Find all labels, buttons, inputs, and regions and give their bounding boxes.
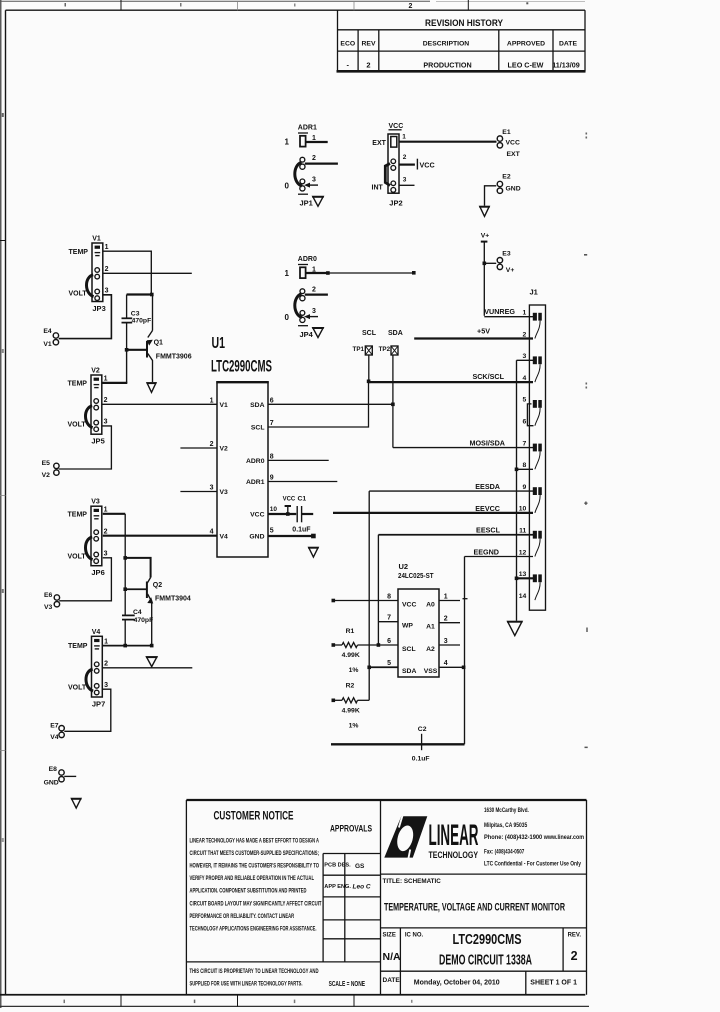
svg-text:3: 3 bbox=[104, 419, 108, 426]
op-amp U1 LTC2990CMS bbox=[211, 335, 272, 557]
svg-text:1: 1 bbox=[105, 244, 109, 251]
J1 pin 3 contact bbox=[533, 356, 542, 382]
svg-text:U2: U2 bbox=[399, 562, 409, 571]
wire JP5 pin3 to E5 bbox=[59, 426, 112, 469]
svg-text:www.linear.com: www.linear.com bbox=[543, 834, 585, 841]
svg-text:R2: R2 bbox=[346, 682, 355, 689]
wire U2 A0 stub bbox=[439, 600, 460, 602]
svg-text:VCC: VCC bbox=[420, 160, 435, 169]
svg-text:SCL: SCL bbox=[251, 425, 265, 432]
svg-text:1: 1 bbox=[104, 638, 108, 645]
svg-text:3: 3 bbox=[403, 177, 407, 184]
svg-text:APPROVALS: APPROVALS bbox=[330, 824, 372, 835]
svg-text:JP7: JP7 bbox=[92, 700, 105, 709]
svg-text:VOLT: VOLT bbox=[69, 290, 88, 297]
wire U2 VCC bbox=[333, 600, 398, 602]
svg-text:SCL: SCL bbox=[362, 330, 377, 337]
wire SCK/SCL bbox=[369, 381, 534, 383]
wire JP1 pin3 stub bbox=[306, 184, 318, 186]
wire EEVCC (VCC net) bbox=[333, 512, 533, 514]
svg-text:2: 2 bbox=[409, 3, 413, 10]
svg-text:14: 14 bbox=[519, 593, 527, 600]
capacitor C4 470pF bbox=[122, 609, 153, 646]
svg-text:LTC Confidential - For Custome: LTC Confidential - For Customer Use Only bbox=[484, 861, 581, 868]
svg-text:A1: A1 bbox=[426, 624, 435, 631]
svg-text:EXT: EXT bbox=[507, 151, 521, 158]
revision history table bbox=[337, 10, 586, 71]
svg-text:LTC2990CMS: LTC2990CMS bbox=[211, 357, 272, 376]
test point TP1 SCL bbox=[353, 330, 377, 355]
svg-text:10: 10 bbox=[519, 506, 527, 513]
svg-text:DATE: DATE bbox=[383, 977, 401, 984]
svg-text:1: 1 bbox=[285, 138, 290, 147]
header JP3 (V1) bbox=[69, 236, 109, 314]
svg-text:VCC: VCC bbox=[389, 123, 404, 130]
ground at JP1 bbox=[313, 197, 324, 207]
wire E8 stub bbox=[64, 775, 76, 777]
wire V+ to E3 and VUNREG bbox=[483, 242, 485, 316]
junction TP1 / SCK-SCL bbox=[367, 380, 371, 384]
turret E7 V4 bbox=[50, 722, 64, 741]
svg-text:E1: E1 bbox=[502, 129, 511, 136]
wire JP3 pin3 to E4 bbox=[59, 295, 112, 339]
svg-text:SCK/SCL: SCK/SCL bbox=[472, 372, 504, 381]
J1 pin 1 contact bbox=[533, 313, 542, 339]
J1 pin 9 contact bbox=[533, 487, 542, 513]
wire U1 VCC pin bbox=[268, 513, 296, 515]
svg-text:V3: V3 bbox=[220, 489, 229, 496]
svg-text:470pF: 470pF bbox=[134, 617, 154, 624]
svg-text:C4: C4 bbox=[133, 609, 142, 616]
svg-text:3: 3 bbox=[104, 682, 108, 689]
svg-text:Monday, October 04, 2010: Monday, October 04, 2010 bbox=[414, 979, 500, 986]
svg-text:REVISION HISTORY: REVISION HISTORY bbox=[425, 18, 504, 29]
wire J1 pin3 to ground bus bbox=[517, 359, 534, 361]
svg-text:SDA: SDA bbox=[250, 402, 264, 409]
wire Q2 base bbox=[125, 588, 147, 590]
svg-text:3: 3 bbox=[104, 551, 108, 558]
svg-text:TEMP: TEMP bbox=[69, 249, 89, 256]
wire JP4 pin3 stub bbox=[306, 316, 318, 318]
J1 pin 11 contact bbox=[533, 531, 542, 557]
wire C3 top to Q1 emitter vertical bbox=[127, 293, 153, 295]
svg-text:TECHNOLOGY: TECHNOLOGY bbox=[429, 850, 479, 861]
junction C3 bottom / Q1 base bbox=[125, 348, 129, 352]
resistor R2 4.99K bbox=[333, 682, 360, 729]
wire U1 V3 stub bbox=[180, 491, 217, 493]
svg-text:1: 1 bbox=[523, 310, 527, 317]
svg-text:V1: V1 bbox=[92, 236, 101, 243]
svg-text:V1: V1 bbox=[43, 341, 52, 348]
company address bbox=[484, 807, 584, 868]
svg-text:TEMP: TEMP bbox=[68, 643, 88, 650]
svg-text:SDA: SDA bbox=[388, 330, 403, 337]
svg-text:SUPPLIED FOR USE WITH LINEAR T: SUPPLIED FOR USE WITH LINEAR TECHNOLOGY … bbox=[190, 982, 303, 988]
jumper JP2 (VCC EXT/INT select) bbox=[372, 123, 407, 207]
svg-text:2: 2 bbox=[104, 397, 108, 404]
wire JP6 pin2 to U1 V4 bbox=[103, 535, 217, 537]
svg-text:PERFORMANCE OR RELIABILITY. CO: PERFORMANCE OR RELIABILITY. CONTACT LINE… bbox=[190, 914, 295, 920]
svg-text:1: 1 bbox=[444, 593, 448, 600]
turret E8 GND bbox=[44, 766, 65, 786]
wire JP7 pin2 (dangling) bbox=[103, 667, 192, 669]
wire JP4 pin2 stub bbox=[305, 294, 328, 296]
svg-text:J1: J1 bbox=[530, 288, 538, 297]
svg-text:1: 1 bbox=[312, 135, 316, 142]
svg-text:12: 12 bbox=[519, 549, 527, 556]
svg-text:EEGND: EEGND bbox=[473, 547, 499, 556]
svg-text:GND: GND bbox=[506, 186, 521, 193]
svg-text:0: 0 bbox=[285, 313, 290, 322]
svg-text:JP2: JP2 bbox=[389, 198, 402, 207]
wire Q1 base bbox=[127, 349, 147, 351]
wire JP3 pin1 to Q1 collector net bbox=[103, 251, 152, 294]
wire JP5 pin1 to Q1 base junction bbox=[102, 382, 128, 384]
svg-text:TP1: TP1 bbox=[353, 346, 365, 353]
svg-text:6: 6 bbox=[387, 638, 391, 645]
svg-text:TECHNOLOGY APPLICATIONS ENGINE: TECHNOLOGY APPLICATIONS ENGINEERING FOR … bbox=[190, 926, 317, 932]
svg-text:1: 1 bbox=[104, 376, 108, 383]
title block bbox=[186, 800, 586, 995]
wire EESDA vertical bbox=[368, 491, 370, 700]
svg-text:8: 8 bbox=[270, 453, 274, 460]
svg-text:2: 2 bbox=[403, 154, 407, 161]
svg-text:C3: C3 bbox=[131, 310, 140, 317]
svg-text:JP3: JP3 bbox=[92, 304, 105, 313]
svg-text:JP5: JP5 bbox=[91, 437, 104, 446]
svg-text:V4: V4 bbox=[220, 533, 229, 540]
svg-text:V2: V2 bbox=[42, 472, 51, 479]
jumper JP1 (ADR1) bbox=[285, 124, 317, 207]
svg-text:Q2: Q2 bbox=[153, 582, 162, 589]
svg-text:APP ENG.: APP ENG. bbox=[324, 884, 351, 890]
wire EEGND bbox=[465, 556, 534, 558]
ground at E8 bbox=[71, 799, 81, 809]
capacitor C3 470pF bbox=[122, 295, 152, 350]
wire JP6 pin3 to E6 bbox=[59, 558, 111, 601]
wire JP4 pin1 (ADR0 net) bbox=[306, 272, 328, 274]
svg-text:IC NO.: IC NO. bbox=[405, 933, 424, 939]
svg-text:V+: V+ bbox=[481, 232, 490, 239]
svg-text:N/A: N/A bbox=[383, 951, 402, 963]
svg-text:3: 3 bbox=[210, 485, 214, 492]
svg-text:VCC: VCC bbox=[283, 496, 296, 503]
svg-text:11/13/09: 11/13/09 bbox=[552, 61, 580, 70]
svg-text:APPROVED: APPROVED bbox=[507, 40, 545, 47]
svg-text:2: 2 bbox=[105, 266, 109, 273]
svg-text:Milpitas, CA 95035: Milpitas, CA 95035 bbox=[484, 822, 528, 829]
wire U2 A2 stub bbox=[439, 644, 460, 646]
turret E5 V2 bbox=[42, 460, 60, 479]
svg-text:2: 2 bbox=[571, 949, 578, 963]
wire U2 VSS to EEGND vertical bbox=[439, 666, 465, 668]
svg-text:E8: E8 bbox=[49, 766, 58, 773]
svg-text:Fax: (408)434-0507: Fax: (408)434-0507 bbox=[484, 849, 525, 856]
ground at U1 bbox=[309, 547, 319, 557]
svg-text:5: 5 bbox=[270, 527, 274, 534]
svg-text:SCL: SCL bbox=[402, 646, 416, 653]
svg-text:24LC025-ST: 24LC025-ST bbox=[398, 571, 434, 580]
svg-text:CUSTOMER NOTICE: CUSTOMER NOTICE bbox=[214, 811, 294, 823]
J1 pin 7 contact bbox=[533, 444, 542, 470]
ground at J1 bbox=[508, 621, 523, 635]
wire U1 GND bbox=[268, 535, 313, 537]
svg-text:A2: A2 bbox=[426, 646, 435, 653]
svg-text:8: 8 bbox=[523, 462, 527, 469]
svg-text:REV.: REV. bbox=[568, 933, 582, 939]
svg-text:0: 0 bbox=[285, 181, 290, 190]
ground at Q2 emitter bbox=[146, 657, 157, 667]
wire J1 pin5-6 tie bbox=[527, 404, 533, 426]
wire JP2 pin3 stub bbox=[399, 184, 415, 186]
svg-text:2: 2 bbox=[366, 61, 370, 70]
svg-text:6: 6 bbox=[523, 419, 527, 426]
svg-text:TITLE: SCHEMATIC: TITLE: SCHEMATIC bbox=[383, 878, 442, 885]
wire U1 SCL up to SCK/SCL net bbox=[268, 381, 369, 427]
svg-text:SDA: SDA bbox=[402, 668, 416, 675]
svg-text:Leo C: Leo C bbox=[353, 884, 371, 891]
connector J1 bbox=[529, 288, 545, 611]
svg-text:2: 2 bbox=[104, 528, 108, 535]
svg-text:V2: V2 bbox=[220, 446, 229, 453]
svg-text:4: 4 bbox=[210, 529, 214, 536]
wire R1 to U2 SCL bbox=[358, 644, 399, 646]
svg-text:VCC: VCC bbox=[506, 140, 520, 147]
svg-text:1630 McCarthy Blvd.: 1630 McCarthy Blvd. bbox=[484, 807, 529, 814]
svg-text:11: 11 bbox=[519, 528, 526, 535]
svg-text:EEVCC: EEVCC bbox=[475, 504, 500, 513]
wire R2 to EESDA vertical bbox=[358, 699, 370, 701]
J1 pin 13 contact bbox=[533, 574, 542, 600]
resistor R1 4.99K bbox=[333, 628, 360, 674]
wire EESCL vertical bbox=[377, 535, 379, 645]
svg-text:VERIFY PROPER AND RELIABLE OPE: VERIFY PROPER AND RELIABLE OPERATION IN … bbox=[190, 876, 315, 882]
svg-text:E5: E5 bbox=[42, 460, 51, 467]
turret E4 V1 bbox=[43, 328, 58, 348]
wire TP2 down to MOSI/SDA bbox=[392, 355, 394, 448]
svg-text:LINEAR: LINEAR bbox=[429, 819, 479, 852]
wire JP6 pin1 down to Q2 collector bbox=[103, 513, 125, 515]
svg-text:2: 2 bbox=[523, 331, 527, 338]
svg-text:V4: V4 bbox=[50, 734, 59, 741]
junction J1 pin8 / ground bus bbox=[515, 468, 519, 472]
wire EESDA bbox=[369, 490, 533, 492]
svg-text:7: 7 bbox=[270, 420, 274, 427]
header JP5 (V2) bbox=[68, 368, 108, 446]
wire JP7 pin1 / C4 / Q2 emitter to ground bbox=[103, 645, 152, 647]
svg-text:CIRCUIT THAT MEETS CUSTOMER-SU: CIRCUIT THAT MEETS CUSTOMER-SUPPLIED SPE… bbox=[190, 851, 320, 857]
Linear Technology logo bbox=[384, 815, 478, 861]
svg-text:LINEAR TECHNOLOGY HAS MADE A B: LINEAR TECHNOLOGY HAS MADE A BEST EFFORT… bbox=[190, 839, 320, 845]
svg-text:APPLICATION. COMPONENT SUBSTIT: APPLICATION. COMPONENT SUBSTITUTION AND … bbox=[190, 889, 307, 895]
svg-text:INT: INT bbox=[372, 185, 384, 192]
svg-text:0.1uF: 0.1uF bbox=[412, 756, 430, 763]
turret E3 V+ bbox=[497, 250, 514, 273]
ground at E2 bbox=[480, 206, 490, 216]
svg-text:VOLT: VOLT bbox=[68, 421, 87, 428]
transistor Q1 FMMT3906 bbox=[147, 295, 192, 383]
svg-text:CIRCUIT BOARD LAYOUT MAY SIGNI: CIRCUIT BOARD LAYOUT MAY SIGNIFICANTLY A… bbox=[190, 901, 322, 907]
svg-text:E4: E4 bbox=[43, 328, 52, 335]
svg-text:FMMT3904: FMMT3904 bbox=[155, 596, 191, 603]
wire JP7 pin3 to E7 bbox=[64, 689, 111, 731]
svg-text:VOLT: VOLT bbox=[68, 685, 87, 692]
svg-text:EXT: EXT bbox=[372, 140, 386, 147]
svg-text:5: 5 bbox=[387, 660, 391, 667]
wire U1 SDA to TP2 net bbox=[268, 403, 393, 405]
wire E2 to ground bbox=[485, 186, 497, 206]
wire JP2 pin2 to VCC flag bbox=[399, 164, 415, 166]
svg-text:SIZE: SIZE bbox=[383, 933, 396, 939]
svg-text:7: 7 bbox=[387, 615, 391, 622]
svg-text:VSS: VSS bbox=[424, 668, 438, 675]
svg-text:V1: V1 bbox=[220, 402, 229, 409]
svg-text:PCB DES.: PCB DES. bbox=[324, 863, 351, 869]
junction Q2 base / C4 net bbox=[123, 587, 127, 591]
svg-text:R1: R1 bbox=[346, 628, 355, 635]
svg-text:LEO C-EW: LEO C-EW bbox=[508, 61, 544, 70]
EEPROM U2 24LC025-ST bbox=[398, 562, 439, 677]
svg-text:1%: 1% bbox=[349, 667, 359, 674]
svg-text:VCC: VCC bbox=[402, 601, 416, 608]
wire JP5 pin2 to U1 V1 bbox=[102, 403, 217, 405]
wire U2 WP stub bbox=[378, 621, 398, 623]
svg-text:SCALE = NONE: SCALE = NONE bbox=[329, 981, 366, 988]
ground at JP4 bbox=[313, 328, 324, 338]
svg-text:8: 8 bbox=[387, 593, 391, 600]
svg-text:Phone: (408)432-1900: Phone: (408)432-1900 bbox=[484, 834, 543, 841]
svg-text:1: 1 bbox=[285, 269, 290, 278]
svg-text:JP6: JP6 bbox=[91, 568, 104, 577]
header JP6 (V3) bbox=[68, 499, 108, 578]
svg-text:EESDA: EESDA bbox=[475, 482, 500, 491]
svg-text:3: 3 bbox=[312, 177, 316, 184]
svg-text:JP1: JP1 bbox=[300, 198, 313, 207]
svg-text:9: 9 bbox=[523, 484, 527, 491]
svg-text:9: 9 bbox=[270, 475, 274, 482]
wire VUNREG bbox=[484, 316, 533, 318]
svg-text:1: 1 bbox=[104, 507, 108, 514]
svg-text:TEMPERATURE, VOLTAGE AND CURRE: TEMPERATURE, VOLTAGE AND CURRENT MONITOR bbox=[384, 902, 565, 914]
svg-text:ECO: ECO bbox=[340, 40, 355, 47]
svg-text:E2: E2 bbox=[502, 173, 511, 180]
svg-text:WP: WP bbox=[402, 623, 413, 630]
wire U2 SDA bbox=[369, 666, 398, 668]
svg-text:V3: V3 bbox=[44, 604, 53, 611]
svg-text:SHEET 1 OF 1: SHEET 1 OF 1 bbox=[530, 979, 577, 986]
svg-text:2: 2 bbox=[210, 441, 214, 448]
wire TP1 down bbox=[368, 355, 370, 381]
capacitor C2 0.1uF bbox=[331, 726, 465, 763]
svg-text:ADR1: ADR1 bbox=[298, 124, 317, 131]
svg-text:5: 5 bbox=[523, 397, 527, 404]
svg-text:GS: GS bbox=[355, 863, 365, 870]
svg-text:C1: C1 bbox=[298, 496, 307, 503]
svg-text:4.99K: 4.99K bbox=[342, 652, 360, 659]
test point TP2 SDA bbox=[379, 330, 403, 355]
svg-text:A0: A0 bbox=[426, 601, 435, 608]
junction JP6 net / Q2 collector wire bbox=[123, 556, 127, 560]
svg-text:JP4: JP4 bbox=[300, 330, 314, 339]
svg-text:1: 1 bbox=[210, 397, 214, 404]
svg-text:VUNREG: VUNREG bbox=[484, 307, 515, 316]
svg-text:Q1: Q1 bbox=[154, 340, 163, 347]
svg-text:3: 3 bbox=[312, 308, 316, 315]
svg-text:FMMT3906: FMMT3906 bbox=[156, 354, 192, 361]
wire U1 ADR0 stub bbox=[268, 459, 329, 461]
svg-text:THIS CIRCUIT IS PROPRIETARY TO: THIS CIRCUIT IS PROPRIETARY TO LINEAR TE… bbox=[190, 969, 319, 975]
power tap V+ bbox=[481, 232, 490, 241]
wire JP3 pin2 (dangling) bbox=[103, 272, 192, 274]
turret E6 V3 bbox=[44, 592, 60, 611]
wire EEGND vertical bbox=[464, 557, 466, 745]
transistor Q2 FMMT3904 bbox=[147, 578, 191, 646]
svg-text:3: 3 bbox=[444, 638, 448, 645]
title fields bbox=[381, 874, 587, 995]
svg-text:ADR1: ADR1 bbox=[246, 479, 265, 486]
svg-text:10: 10 bbox=[270, 506, 278, 513]
svg-text:2: 2 bbox=[444, 616, 448, 623]
svg-text:GND: GND bbox=[44, 780, 59, 787]
svg-text:V+: V+ bbox=[506, 267, 515, 274]
svg-text:VOLT: VOLT bbox=[68, 553, 87, 560]
turret E2 GND bbox=[497, 173, 520, 193]
ground at Q1 bbox=[147, 383, 156, 393]
svg-text:3: 3 bbox=[523, 353, 527, 360]
wire JP1 pin2 stub bbox=[305, 163, 338, 165]
header JP7 (V4) bbox=[68, 629, 108, 709]
svg-text:2: 2 bbox=[312, 155, 316, 162]
svg-text:TEMP: TEMP bbox=[68, 381, 88, 388]
svg-text:REV: REV bbox=[362, 40, 376, 47]
svg-text:V2: V2 bbox=[91, 368, 100, 375]
svg-text:E6: E6 bbox=[44, 592, 53, 599]
svg-text:EESCL: EESCL bbox=[476, 526, 501, 535]
svg-text:U1: U1 bbox=[212, 335, 226, 352]
svg-text:0.1uF: 0.1uF bbox=[292, 527, 311, 534]
svg-text:LTC2990CMS: LTC2990CMS bbox=[453, 932, 522, 948]
svg-text:DATE: DATE bbox=[559, 40, 577, 47]
svg-text:MOSI/SDA: MOSI/SDA bbox=[469, 438, 505, 447]
svg-text:ADR0: ADR0 bbox=[246, 458, 265, 465]
svg-text:ADR0: ADR0 bbox=[298, 256, 317, 263]
svg-text:DESCRIPTION: DESCRIPTION bbox=[423, 40, 470, 47]
svg-text:+5V: +5V bbox=[477, 326, 490, 335]
svg-text:7: 7 bbox=[523, 440, 527, 447]
svg-text:V4: V4 bbox=[92, 629, 101, 636]
wire JP2 pin1 to E1 (VCC EXT) bbox=[399, 141, 497, 143]
svg-text:V3: V3 bbox=[91, 499, 100, 506]
svg-text:2: 2 bbox=[104, 660, 108, 667]
svg-text:3: 3 bbox=[105, 288, 109, 295]
wire J1 pin13 to ground bus bbox=[517, 577, 534, 579]
wire U1 ADR1 stub bbox=[268, 481, 337, 483]
J1 pin 5 contact bbox=[533, 400, 542, 426]
svg-text:470pF: 470pF bbox=[132, 318, 152, 325]
wire JP1 pin1 to ADR1 stub bbox=[306, 141, 328, 143]
svg-text:2: 2 bbox=[312, 286, 316, 293]
svg-text:4: 4 bbox=[444, 660, 448, 667]
wire MOSI/SDA bbox=[393, 447, 533, 449]
svg-text:E3: E3 bbox=[502, 250, 511, 257]
wire EESCL bbox=[378, 534, 533, 536]
power tap VCC at U1 bbox=[283, 496, 296, 515]
svg-text:E7: E7 bbox=[50, 722, 59, 729]
svg-text:1: 1 bbox=[402, 134, 406, 141]
svg-text:6: 6 bbox=[270, 397, 274, 404]
turret E1 VCC EXT bbox=[497, 129, 520, 158]
capacitor C1 0.1uF bbox=[292, 496, 313, 534]
